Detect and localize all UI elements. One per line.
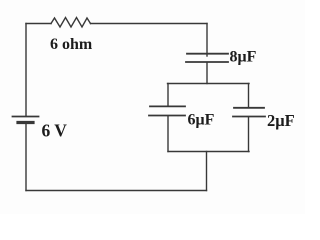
wire top-left segment [26, 23, 51, 25]
svg-text:6 ohm: 6 ohm [50, 36, 93, 53]
wire left drop to 6uF [167, 84, 169, 106]
wire right drop below 2uF to lower bus [248, 118, 250, 152]
wire left drop below 6uF to lower bus [167, 117, 169, 152]
wire from 8uF down to upper bus [206, 63, 208, 84]
capacitor 8uF [186, 54, 228, 62]
wire left vertical upper [25, 24, 27, 117]
capacitor 2uF [233, 108, 265, 117]
wire center vertical from lower bus to bottom [206, 152, 208, 191]
wire bottom [26, 190, 207, 192]
svg-text:6 V: 6 V [42, 121, 68, 141]
wire upper bus [168, 83, 250, 85]
capacitor 6uF [149, 106, 185, 115]
wire top segment to right corner [91, 23, 208, 25]
wire right drop to 2uF [248, 84, 250, 108]
svg-text:2μF: 2μF [267, 111, 295, 130]
wire left vertical lower [25, 124, 27, 191]
svg-text:8μF: 8μF [230, 49, 257, 66]
resistor 6 ohm [51, 18, 91, 28]
svg-text:6μF: 6μF [188, 112, 215, 129]
wire right vertical into 8uF [206, 24, 208, 57]
wire lower bus [168, 151, 249, 153]
battery 6V long plate [13, 116, 39, 118]
battery 6V short thick plate [18, 121, 33, 124]
